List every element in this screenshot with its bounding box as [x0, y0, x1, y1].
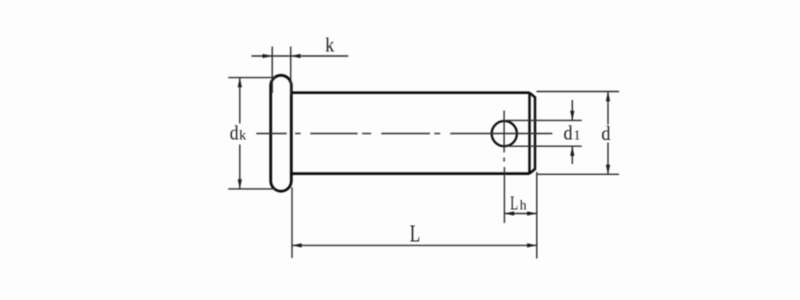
svg-text:d: d [601, 123, 610, 145]
dimension dk : bottom arrow [238, 179, 242, 189]
dimension d1 : top arrow [570, 111, 574, 121]
dimension d : extension lines [537, 92, 620, 175]
dimension Lh : extension lines [504, 167, 536, 259]
dimension d : bottom arrow [606, 165, 610, 175]
dimension Lh : left arrow [504, 211, 514, 215]
dimension d : dimension line [607, 92, 609, 175]
dimension d : top arrow [606, 92, 610, 102]
horizontal centerline (dash-dot) [256, 133, 552, 135]
dimension L : left extension line [291, 187, 293, 258]
dimension L : left arrow [292, 243, 302, 247]
dimension Lh : dimension line [504, 213, 536, 215]
dimension k : right arrow [291, 54, 301, 58]
svg-text:d: d [230, 122, 239, 144]
pin end face with chamfer corners [530, 93, 536, 174]
pin shank top edge [291, 91, 529, 94]
vertical centerline through hole [503, 111, 505, 162]
dimension L : dimension line [292, 244, 537, 246]
dimension L : right arrow [527, 243, 537, 247]
dimension d1 : bottom arrow [570, 146, 574, 156]
dimension dk : dimension line [239, 78, 241, 189]
svg-text:k: k [239, 128, 246, 143]
dimension k : left arrow [263, 54, 273, 58]
pin hole [492, 121, 517, 146]
dimension k : dimension line [251, 55, 348, 57]
pin shank bottom edge [291, 172, 529, 175]
dimension dk : extension lines [228, 78, 276, 189]
svg-text:1: 1 [574, 127, 581, 142]
pin end chamfer line [528, 93, 531, 174]
svg-text:h: h [520, 197, 527, 212]
svg-text:d: d [564, 122, 573, 144]
svg-text:L: L [410, 219, 420, 247]
pin head (capsule) [271, 75, 292, 191]
svg-text:L: L [510, 192, 518, 214]
dimension d1 : extension lines [506, 120, 582, 146]
dimension dk : top arrow [238, 78, 242, 88]
dimension Lh : right arrow [527, 211, 537, 215]
dimension k : extension lines [272, 47, 291, 96]
svg-text:k: k [325, 34, 334, 56]
dimension d1 : arrow leaders [571, 100, 573, 164]
